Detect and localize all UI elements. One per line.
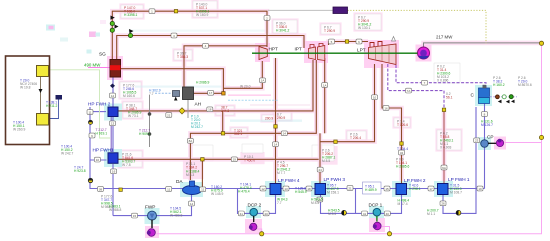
svg-text:T 206.4: T 206.4 — [350, 136, 361, 140]
svg-text:LP FWH 1: LP FWH 1 — [448, 177, 470, 182]
wire cold reheat branch to SG — [120, 69, 223, 94]
GLOWS — [112, 11, 540, 184]
motor FWP-M — [147, 220, 156, 237]
svg-text:HP FWH1: HP FWH1 — [93, 148, 114, 153]
svg-text:M 126.7: M 126.7 — [481, 123, 493, 127]
CW arrow 1 — [498, 100, 502, 104]
svg-text:DCP 2: DCP 2 — [248, 203, 262, 208]
node N8 yellow — [334, 140, 337, 143]
svg-text:11: 11 — [201, 188, 204, 192]
air heater AH — [183, 87, 194, 100]
svg-text:W 130.1: W 130.1 — [358, 26, 370, 30]
wire power bus — [157, 43, 542, 234]
wire IPT to LPT crossover — [329, 42, 369, 46]
svg-text:HPT: HPT — [269, 47, 279, 52]
svg-text:12: 12 — [111, 94, 115, 98]
svg-text:41: 41 — [363, 212, 367, 216]
fuel source F1 — [37, 66, 49, 77]
heater LP FWH1 — [438, 184, 449, 195]
svg-text:7.7: 7.7 — [277, 201, 282, 205]
svg-text:C: C — [471, 93, 475, 98]
wire LPT exhaust to condenser — [396, 65, 486, 88]
svg-text:M 17.4: M 17.4 — [398, 202, 408, 206]
svg-text:W 260.9: W 260.9 — [13, 128, 25, 132]
svg-text:H 3398.1: H 3398.1 — [124, 13, 138, 17]
svg-text:M 108.7: M 108.7 — [450, 191, 462, 195]
valve V5 — [129, 29, 134, 33]
wire LP FWH1 drain to condenser — [443, 107, 476, 213]
node N2 yellow — [345, 40, 348, 43]
svg-text:W 19.8: W 19.8 — [20, 86, 31, 90]
svg-text:W 7.8: W 7.8 — [122, 163, 131, 167]
wire LPT extraction to LP FWH1 — [388, 64, 444, 110]
svg-text:21: 21 — [348, 186, 352, 190]
wire AH stack — [187, 100, 189, 119]
deaerator DA — [183, 181, 202, 195]
svg-text:H 211.2: H 211.2 — [46, 104, 57, 108]
svg-text:490 MW: 490 MW — [84, 63, 101, 68]
svg-text:M 158.1: M 158.1 — [327, 191, 339, 195]
wire LPT extraction to LP FWH3 header — [320, 64, 375, 142]
svg-text:IPT: IPT — [295, 47, 302, 52]
node air2 — [148, 132, 152, 136]
svg-text:20: 20 — [318, 198, 322, 202]
STREAMBOXES — [87, 9, 488, 218]
svg-text:H 919.1: H 919.1 — [96, 131, 108, 135]
svg-text:24: 24 — [319, 168, 323, 172]
wire IPT extraction to DA — [190, 60, 316, 180]
svg-text:290.9: 290.9 — [265, 117, 273, 121]
svg-text:LP FWH 2: LP FWH 2 — [404, 178, 426, 183]
svg-text:8A: 8A — [189, 139, 193, 143]
wire generator output gray — [424, 43, 542, 47]
svg-text:11: 11 — [88, 110, 91, 114]
wire pink aux — [228, 94, 271, 96]
wire main steam SG to HPT — [112, 11, 267, 60]
wire FWP discharge riser — [112, 164, 114, 216]
svg-text:W 20.0: W 20.0 — [240, 84, 251, 88]
WIRES-MISC — [41, 10, 487, 147]
air arrow — [174, 97, 178, 101]
turbine IPT stage1 — [309, 47, 316, 60]
turbine LPT — [369, 44, 397, 65]
wire HP FWH1 feed riser — [89, 107, 91, 160]
motor DCP1-M — [373, 216, 381, 230]
svg-text:41: 41 — [240, 212, 244, 216]
svg-text:16: 16 — [112, 170, 116, 174]
valve V3 — [115, 25, 119, 29]
heater HP FWH2 — [108, 107, 118, 117]
node N7 yellow — [274, 125, 277, 128]
valve V4 green — [110, 28, 114, 32]
svg-text:T 348.7: T 348.7 — [126, 107, 137, 111]
wire LP FWH3 drain — [321, 189, 356, 214]
svg-text:13: 13 — [284, 187, 288, 191]
valve V7 feedwater — [110, 84, 115, 89]
svg-text:T 450.0: T 450.0 — [244, 158, 255, 162]
svg-text:16: 16 — [384, 106, 388, 110]
svg-text:W 988.8: W 988.8 — [109, 208, 121, 212]
svg-text:HP FWH 2: HP FWH 2 — [88, 102, 111, 107]
wire CW line — [490, 96, 518, 98]
tank T1 — [6, 56, 50, 145]
wire HP FWH1 to HP FWH2 — [112, 116, 114, 152]
svg-text:18: 18 — [208, 108, 212, 112]
svg-text:M 8670.6: M 8670.6 — [518, 83, 532, 87]
svg-text:11: 11 — [167, 187, 170, 191]
svg-text:T 356.3: T 356.3 — [177, 55, 188, 59]
svg-text:40: 40 — [264, 212, 268, 216]
wire LP condensate header — [90, 160, 485, 189]
svg-text:LPT: LPT — [357, 48, 366, 53]
svg-text:H 489.9: H 489.9 — [365, 188, 377, 192]
svg-text:X 0.896: X 0.896 — [437, 79, 449, 83]
svg-text:SG: SG — [99, 52, 106, 57]
node N9 yellow — [400, 142, 403, 145]
heater LP FWH4 — [270, 184, 281, 195]
pump DCP1 — [373, 208, 381, 216]
pump FWP impeller — [150, 214, 155, 219]
node N12 half — [88, 120, 92, 124]
svg-text:14: 14 — [274, 143, 278, 147]
svg-text:X 0.903: X 0.903 — [440, 146, 452, 150]
svg-text:H 545.9: H 545.9 — [295, 190, 307, 194]
svg-text:M 8.3: M 8.3 — [186, 173, 194, 177]
node N11 yellow — [119, 188, 122, 191]
svg-text:17: 17 — [209, 91, 213, 95]
heater HP FWH1 — [108, 153, 118, 164]
fuel source F2 — [37, 114, 49, 126]
svg-text:14: 14 — [283, 132, 287, 136]
node N4 yellow — [539, 135, 543, 139]
svg-text:1A: 1A — [323, 83, 327, 87]
svg-text:H 298.1: H 298.1 — [409, 187, 421, 191]
wire SG heat input — [88, 67, 110, 69]
node N5 orange — [222, 92, 225, 95]
wire LP FWH3 steam inlet — [319, 133, 321, 184]
turbine HPT — [259, 47, 267, 60]
wire HPT extraction to LP FWH4 — [275, 58, 277, 184]
svg-text:W 73.1: W 73.1 — [128, 114, 139, 118]
valve V1 — [111, 16, 115, 20]
svg-text:T 290.9: T 290.9 — [324, 29, 335, 33]
wire gray aux line — [268, 9, 333, 11]
wire HP FWH2 to SG feed — [112, 77, 114, 107]
SBOXNUMS — [88, 10, 485, 218]
svg-text:10: 10 — [373, 96, 377, 100]
generator G — [418, 47, 430, 59]
turbine IPT stage2 — [318, 46, 325, 61]
wire IPT extraction to HP FWH2 — [117, 60, 313, 111]
artifacts — [46, 20, 106, 54]
svg-text:DCP 1: DCP 1 — [369, 203, 383, 208]
svg-text:7A: 7A — [407, 89, 411, 93]
svg-text:14: 14 — [190, 202, 194, 206]
turbine IPT crossover pipes — [310, 44, 323, 49]
svg-text:15: 15 — [385, 187, 389, 191]
pump DCP2 — [250, 208, 258, 216]
check valve CV1 — [342, 210, 347, 215]
wire HP FWH1 outlet — [90, 159, 107, 161]
svg-text:19: 19 — [233, 158, 237, 162]
wire LP FWH1 steam inlet — [443, 110, 445, 184]
svg-text:W 480.8: W 480.8 — [170, 214, 182, 218]
CW node — [502, 95, 506, 99]
svg-text:CP: CP — [487, 135, 494, 140]
svg-text:M 8.5: M 8.5 — [328, 212, 336, 216]
node N1 yellow — [174, 10, 177, 13]
valve V6 green — [128, 33, 132, 37]
svg-text:H 2685.6: H 2685.6 — [396, 165, 410, 169]
wire shaft — [252, 52, 418, 54]
svg-text:T 126.6: T 126.6 — [397, 123, 408, 127]
WIRES-WATER — [90, 64, 486, 216]
svg-text:17: 17 — [429, 187, 433, 191]
CW arrow 2 — [506, 100, 510, 104]
pump FWP — [148, 211, 157, 220]
node N14 yellow — [387, 232, 391, 236]
wire LPT extraction to LP FWH2 — [382, 64, 402, 184]
svg-text:7.7: 7.7 — [149, 92, 154, 96]
text dcp1 out — [363, 182, 382, 194]
wire air inlet dashed — [155, 92, 173, 94]
transformer TR — [333, 7, 348, 14]
svg-text:W 145.9: W 145.9 — [211, 192, 223, 196]
svg-text:H 160.2: H 160.2 — [493, 83, 505, 87]
wire DCP1 motor power — [382, 227, 390, 234]
svg-text:40: 40 — [386, 212, 390, 216]
pump CP — [481, 140, 489, 148]
motor CP-M — [488, 139, 504, 147]
svg-text:12: 12 — [261, 187, 265, 191]
svg-text:23: 23 — [475, 139, 479, 143]
wire AH steam supply — [184, 46, 267, 87]
wire CP motor power — [505, 142, 542, 144]
heater LP FWH2 — [396, 184, 407, 195]
svg-text:W 160.9: W 160.9 — [196, 13, 208, 17]
node N10b dark top — [88, 178, 92, 180]
sink S1 — [56, 95, 63, 100]
svg-text:FWP: FWP — [145, 205, 155, 210]
condenser C — [479, 85, 490, 104]
wire DCP2 motor power — [257, 229, 262, 234]
CW sink green — [509, 95, 513, 99]
arrow A1 — [39, 89, 43, 93]
svg-text:10: 10 — [96, 158, 100, 162]
motor DCP2-M — [249, 216, 257, 230]
svg-text:19: 19 — [478, 187, 482, 191]
svg-text:AH: AH — [195, 102, 202, 107]
svg-text:13: 13 — [111, 122, 115, 126]
svg-text:21: 21 — [167, 113, 171, 117]
check valve CV2 — [456, 210, 461, 215]
wire tank small branch — [49, 100, 59, 119]
wire FWP suction line — [113, 195, 192, 216]
heater LP FWH3 — [315, 184, 326, 195]
vent hat — [392, 37, 396, 42]
svg-text:W 242.7: W 242.7 — [61, 152, 73, 156]
svg-text:H 909.1: H 909.1 — [139, 132, 151, 136]
svg-text:56.1: 56.1 — [446, 96, 453, 100]
svg-text:LP FWH 4: LP FWH 4 — [278, 178, 300, 183]
CW source — [496, 95, 500, 99]
wire condensate condenser to CP — [484, 103, 486, 189]
wire air outlet dashed — [228, 99, 278, 101]
wire tank internal — [40, 77, 42, 114]
svg-text:9A: 9A — [442, 166, 446, 170]
wire fuel line — [49, 70, 111, 138]
air box — [173, 91, 180, 97]
wire drain to DA — [201, 159, 203, 188]
svg-text:09: 09 — [99, 187, 103, 191]
valve V8 yellow — [179, 108, 185, 114]
svg-text:290.9: 290.9 — [277, 116, 285, 120]
svg-text:LP FWH 3: LP FWH 3 — [324, 177, 346, 182]
svg-text:H 923.8: H 923.8 — [74, 169, 86, 173]
wire air duct — [149, 95, 151, 147]
wire LP FWH4 drain to DCP2 — [238, 189, 276, 214]
svg-text:26: 26 — [441, 202, 445, 206]
wire HP FWH2 feed inlet — [90, 111, 106, 113]
node air1 — [148, 112, 152, 116]
node N15 yellow — [442, 108, 445, 111]
valve V2 green — [110, 21, 114, 25]
svg-text:H 476.4: H 476.4 — [238, 190, 250, 194]
wire HP FWH1 drain — [119, 158, 319, 160]
wire HP FWH2 drain cascade — [110, 117, 112, 153]
WIRES-POWER — [88, 43, 542, 234]
node N3 yellow — [539, 41, 543, 45]
WIRES-STEAM — [112, 11, 401, 184]
wire hot reheat SG to IPT — [117, 36, 304, 61]
node N6 yellow — [221, 132, 224, 135]
node N16 yellow — [201, 158, 204, 161]
turbine LPT stages — [376, 45, 390, 63]
wire IPT extraction down — [324, 58, 326, 133]
node N10 half — [88, 178, 92, 182]
turbine LPT inlet pipes — [370, 42, 382, 48]
svg-text:H 2086.9: H 2086.9 — [196, 81, 210, 85]
node N13 yellow — [260, 232, 264, 236]
svg-text:M 1.1: M 1.1 — [427, 212, 435, 216]
svg-text:344.3: 344.3 — [221, 109, 229, 113]
svg-text:15: 15 — [133, 214, 137, 218]
svg-text:M 160.6: M 160.6 — [123, 94, 135, 98]
svg-text:217 MW: 217 MW — [436, 35, 453, 40]
svg-text:18: 18 — [307, 187, 311, 191]
wire AH drain to HPT exhaust — [194, 61, 263, 93]
steam generator SG — [110, 60, 121, 78]
wire LP FWH2 drain to DCP1 — [356, 195, 402, 214]
svg-text:1A: 1A — [261, 79, 265, 83]
svg-text:DA: DA — [176, 179, 183, 184]
svg-text:M 7.7: M 7.7 — [277, 171, 285, 175]
svg-text:M 242.7: M 242.7 — [191, 125, 203, 129]
svg-text:34: 34 — [400, 151, 404, 155]
wire dotted aux line — [348, 10, 487, 43]
svg-text:H 3041.2: H 3041.2 — [276, 29, 290, 33]
svg-text:M 8.5: M 8.5 — [322, 159, 330, 163]
svg-text:302.1: 302.1 — [234, 132, 242, 136]
wire branch to DA line — [222, 111, 224, 133]
CW arrow 3 — [511, 100, 515, 104]
